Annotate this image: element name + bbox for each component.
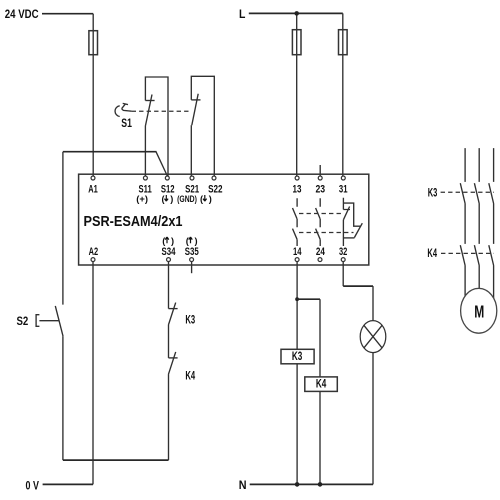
contact S1.2 blade	[192, 94, 198, 126]
wire S1 loop 2 (S21 to S22 over contact)	[191, 76, 214, 176]
svg-text:32: 32	[339, 246, 347, 258]
coil K4	[305, 377, 338, 392]
svg-text:(GND): (GND)	[177, 194, 197, 204]
wire 31-32 to terminal 32	[342, 220, 344, 246]
contact 23-24a (NO)	[316, 198, 321, 219]
terminal S35	[190, 258, 194, 262]
svg-text:N: N	[239, 478, 247, 492]
svg-text:0 V: 0 V	[26, 478, 39, 492]
contact S1.1 blade	[146, 95, 153, 126]
svg-text:(+): (+)	[136, 194, 148, 204]
wire L feed to fuse F3 and terminal 31	[249, 12, 343, 14]
mechanical linkage dashed row 2	[299, 232, 354, 234]
contact 13-14b (NO)	[293, 219, 298, 246]
wire 24VDC feed to fuse F1 and A1	[42, 13, 93, 15]
contact 23-24b (NO)	[316, 219, 321, 246]
svg-text:K4: K4	[427, 246, 437, 260]
S2 push actuator	[36, 315, 59, 327]
wire N line	[250, 483, 373, 485]
svg-text:31: 31	[339, 183, 348, 195]
contactor K3 phase 1	[460, 148, 465, 244]
svg-text:S1: S1	[121, 116, 132, 130]
svg-text:K4: K4	[316, 379, 327, 391]
relay box PSR-ESAM4/2x1	[79, 174, 369, 265]
wire 14 to K3 coil	[296, 262, 298, 350]
svg-text:): )	[195, 236, 198, 246]
S1 mechanical link dashed	[132, 110, 192, 112]
svg-text:23: 23	[316, 183, 326, 195]
fuse F2	[292, 30, 301, 55]
terminal 13	[295, 176, 299, 180]
svg-text:24 VDC: 24 VDC	[5, 7, 39, 21]
wire S34 down to K3 contact	[168, 262, 170, 309]
terminal 31	[341, 176, 345, 180]
contactor K4 phase 3	[489, 245, 494, 298]
contactor K4 phase 2	[474, 245, 479, 289]
wire S1 loop 1 (S11 to S12 over contact)	[145, 77, 168, 176]
lamp H1	[360, 321, 386, 353]
contact 13-14a (NO)	[293, 198, 298, 219]
mechanical linkage dashed row 1	[299, 213, 342, 215]
terminal A2	[91, 258, 95, 262]
wire K4 coil to N	[319, 391, 321, 484]
svg-text:K3: K3	[292, 351, 302, 363]
wire feedback loop bottom	[63, 459, 169, 461]
wire K3 coil to N	[296, 364, 298, 485]
terminal S21	[190, 176, 194, 180]
svg-text:14: 14	[293, 246, 302, 258]
S1 e-stop actuator	[115, 103, 132, 116]
svg-text:S34: S34	[162, 246, 176, 258]
svg-text:K4: K4	[185, 369, 195, 383]
terminal S12	[165, 176, 169, 180]
svg-text:M: M	[474, 302, 484, 322]
contact K4 blade	[168, 352, 175, 375]
terminal 23	[318, 176, 322, 180]
terminal 32	[341, 258, 345, 262]
svg-text:13: 13	[293, 183, 302, 195]
svg-text:S2: S2	[17, 314, 29, 328]
terminal 14	[295, 258, 299, 262]
contact S2 (NO start button) blade	[55, 306, 63, 336]
svg-text:K3: K3	[185, 313, 195, 327]
wire K4 down to feedback loop	[168, 374, 170, 460]
svg-text:S35: S35	[185, 246, 199, 258]
wire S1.1 to S11	[144, 126, 146, 176]
contact 31-32b (NC) blade	[354, 223, 362, 237]
wire K3 to K4 contact	[168, 325, 170, 358]
fuse F1	[89, 31, 98, 55]
wire stub S35	[191, 262, 193, 273]
contactor K3 linkage dashed	[441, 191, 494, 193]
wire 0V	[43, 483, 93, 485]
wire lamp to N	[372, 353, 374, 485]
wire branch to fuse F2 and terminal 13	[296, 13, 298, 176]
node junction K4 return	[318, 482, 323, 487]
wire S1.2 to S21	[190, 125, 192, 176]
svg-text:): )	[209, 194, 212, 204]
motor M	[461, 288, 497, 333]
node junction 14 branch	[295, 297, 299, 301]
node junction K3 return	[295, 482, 300, 487]
contact 31-32a blade	[343, 207, 349, 220]
contactor K3 phase 3	[489, 148, 494, 244]
contact K3 blade	[168, 303, 175, 325]
wire A2 rail to 0V	[92, 262, 94, 485]
wire 31-32b bottom bar	[343, 237, 354, 239]
fuse F3	[339, 30, 348, 55]
svg-text:): )	[170, 194, 173, 204]
svg-text:L: L	[239, 7, 245, 21]
terminal A1	[91, 176, 95, 180]
contactor K4 linkage dashed	[441, 252, 494, 254]
svg-text:A2: A2	[89, 246, 99, 258]
contact K4 (NC feedback) seat	[169, 357, 178, 359]
wire S2 to feedback loop	[62, 336, 64, 460]
svg-text:24: 24	[316, 246, 325, 258]
wire branch to K4 coil	[297, 298, 320, 300]
contact S1.2 (NC) seat	[191, 99, 200, 101]
terminal S34	[167, 258, 171, 262]
contact K3 (NC feedback) seat	[169, 308, 178, 310]
svg-text:PSR-ESAM4/2x1: PSR-ESAM4/2x1	[84, 213, 183, 230]
svg-text:K3: K3	[428, 185, 438, 199]
terminal S22	[212, 176, 216, 180]
svg-text:): )	[171, 236, 174, 246]
wire start loop: S12 to left rail down to S2	[156, 152, 167, 176]
contact S1.1 (NC) seat	[145, 100, 154, 102]
node junction L	[294, 11, 299, 16]
contactor K4 phase 1	[460, 245, 465, 296]
terminal 24	[318, 258, 322, 262]
wire jog to contact 31-32b	[343, 203, 361, 226]
contact 31-32a (NC) stub and seat	[343, 198, 350, 210]
terminal S11	[143, 176, 147, 180]
wire stub terminal 23	[319, 165, 321, 176]
coil K3	[281, 349, 314, 364]
contactor K3 phase 2	[474, 148, 479, 244]
svg-text:A1: A1	[88, 183, 98, 195]
wire 32 to lamp	[342, 262, 344, 286]
